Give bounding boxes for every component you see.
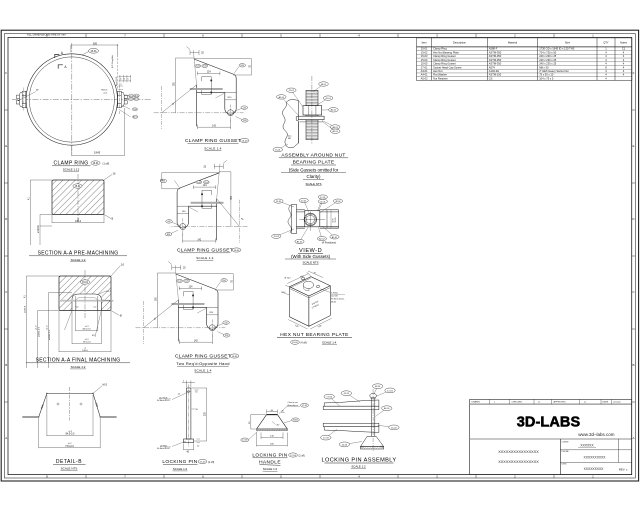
svg-text:E: E [632,144,634,148]
svg-text:ø32: ø32 [225,322,228,324]
corner x marks [361,446,383,448]
dim line 124 [198,72,220,76]
drawing description text [498,450,539,464]
svg-text:41.01: 41.01 [320,201,326,203]
leaders to balloons [120,96,131,117]
dim 142 bottom [179,335,212,345]
balloon 41.01 [129,94,134,97]
title block outline [470,399,632,474]
clamp ring gusset 15-03 balloons and labels [195,64,201,67]
svg-text:A2.01: A2.01 [279,96,285,99]
gusset hole [209,325,215,331]
svg-text:XXXXXXXXXX: XXXXXXXXXX [584,455,607,459]
leader R10 [216,94,225,99]
client cells [562,441,570,465]
right lug detail [117,91,127,107]
lug inner line [225,91,236,93]
svg-text:15-03: 15-03 [178,281,182,283]
svg-text:QTY: QTY [603,41,609,45]
svg-text:XXXXXXXXXXXXXXXX: XXXXXXXXXXXXXXXX [498,450,539,454]
svg-text:SCALE 1:2: SCALE 1:2 [71,258,86,262]
svg-text:Hex Nut: Hex Nut [433,69,443,73]
svg-text:ASTM-350: ASTM-350 [489,54,502,58]
pin knob [370,393,377,398]
svg-text:15-04: 15-04 [234,250,240,252]
groove corner leaders [65,291,109,337]
leader R50 [174,180,179,187]
svg-text:Item: Item [422,41,427,45]
svg-text:CS: CS [489,76,493,80]
bearing plate [298,116,324,120]
gusset hole [180,224,186,230]
svg-text:+1.3: +1.3 [36,325,38,330]
gray bands [320,227,339,229]
locking pin handle view [241,401,309,472]
svg-text:240 x 230 x 25: 240 x 230 x 25 [539,58,557,62]
svg-text:15-03: 15-03 [242,140,248,142]
svg-text:15-02: 15-02 [289,90,295,92]
svg-text:240 x 230 x 25: 240 x 230 x 25 [539,62,557,66]
svg-text:8°: 8° [36,89,38,92]
threaded rod (hatched) [306,90,318,139]
leader note top right [279,406,288,414]
svg-text:15-01: 15-01 [276,201,282,203]
R150 balloon [292,418,300,422]
leader B top right [104,175,112,181]
balloon A5.02 (nut assembly) [322,121,335,131]
base hole leader [172,441,186,447]
leader o32 [215,324,224,327]
svg-text:42.02: 42.02 [344,393,350,395]
balloon A1.01 (assembly) [375,408,387,416]
svg-text:50.29: 50.29 [335,217,337,223]
svg-text:R1.6: R1.6 [109,300,114,302]
balloon 17-05 [132,108,137,111]
balloon A1.01 (view-D) [300,227,309,242]
svg-text:A5-02: A5-02 [421,76,428,80]
svg-text:15-03: 15-03 [197,182,201,184]
nut circles [304,213,317,226]
dim 25 top [168,262,181,300]
dim line 124 [179,287,201,291]
balloon A5.01 (nut assembly) [322,121,335,128]
svg-text:SCALE 1:4: SCALE 1:4 [204,146,222,150]
clamp ring gusset 15-04 balloons and labels [196,181,202,184]
title block header labels [472,401,622,404]
pin body [186,388,191,439]
svg-text:B: B [632,363,634,367]
hex nut bearing plate view [277,271,352,345]
view-D [272,195,343,265]
dim 40 bottom [184,444,194,451]
section A-A cut marks [55,54,63,68]
svg-text:SCALE 1:4: SCALE 1:4 [194,369,212,373]
broken-out ring section (wavy) [282,99,298,148]
balloon 48.01 (assembly) [374,386,378,393]
svg-text:84.5-0.0: 84.5-0.0 [66,432,75,435]
svg-text:15-03: 15-03 [196,66,200,68]
top holes [301,277,305,280]
svg-text:A3-01: A3-01 [421,69,428,73]
parts list table [417,38,632,81]
svg-text:E: E [5,144,7,148]
gusset left edge [216,199,218,241]
zone tick marks top/bottom [86,34,554,479]
svg-text:48.01: 48.01 [321,84,327,86]
dim 50 left [251,415,266,429]
svg-text:A5.02: A5.02 [332,130,338,133]
dim line 350 left [176,58,195,113]
gray slot band [59,300,111,302]
svg-text:A588-F: A588-F [489,47,498,51]
svg-text:15-01: 15-01 [75,186,82,188]
dim 12 right of base [197,439,201,443]
svg-text:Hex Nut Bearing Plate: Hex Nut Bearing Plate [433,50,459,54]
balloon 42.02 (assembly) [346,393,360,402]
bottom dim (section pre) [52,215,104,224]
dim 50 right [176,274,234,290]
svg-text:826: 826 [93,42,98,45]
section centerline [77,174,79,222]
leader M.S [93,386,102,394]
svg-text:15-04: 15-04 [421,58,428,62]
svg-text:F: F [633,71,635,75]
clamp ring outer circle [26,54,117,145]
svg-text:45°: 45° [92,335,95,337]
top dim ticks [182,381,199,391]
leader R50 [216,282,221,289]
ring centerlines [12,43,152,156]
plus marks [57,403,83,406]
balloon 17-01 (view-D) [318,197,323,211]
corner dots [46,393,47,394]
detail-B dims [39,395,100,448]
svg-text:HEX NUT BEARING PLATE: HEX NUT BEARING PLATE [280,332,348,338]
svg-text:42.01: 42.01 [325,98,331,100]
svg-text:Nut Retainer: Nut Retainer [433,76,448,80]
svg-text:73.0-0.0: 73.0-0.0 [83,342,92,344]
svg-text:M8 x 30: M8 x 30 [539,65,549,69]
svg-text:Flat Washer: Flat Washer [433,73,447,77]
svg-text:A2.02: A2.02 [319,237,325,240]
svg-text:DWG: DWG [562,464,567,466]
svg-text:XXXXXXXXXXXXXXXX: XXXXXXXXXXXXXXXX [498,460,539,464]
plate left face [290,287,309,327]
svg-text:SCALE 1:4: SCALE 1:4 [322,341,337,345]
svg-text:Item 41.01: Item 41.01 [115,76,118,86]
svg-text:CLAMP RING GUSSET: CLAMP RING GUSSET [185,138,241,144]
svg-text:(Side Gussets omitted for: (Side Gussets omitted for [289,167,339,172]
svg-text:+1.0: +1.0 [47,325,49,330]
leader R26 [217,332,224,335]
svg-text:48.01: 48.01 [375,386,381,388]
svg-text:F: F [5,71,7,75]
svg-text:Material: Material [508,41,518,45]
svg-text:APPROVED: APPROVED [554,401,567,404]
svg-text:ASTM-350: ASTM-350 [489,62,502,66]
slot band [191,202,223,204]
gusset outline [177,173,219,228]
left lug detail [16,91,26,107]
balloon 42.03 (assembly) [344,442,362,445]
assembly centerline [372,389,374,451]
balloon 15-02 (nut assembly) [291,90,303,107]
balloon 48.01 (view-D) [320,201,338,212]
final machining hatched section [59,276,111,311]
svg-text:C1: C1 [622,47,626,51]
dim line 350 left [219,172,231,227]
svg-text:www.3d–labs.com: www.3d–labs.com [578,432,615,437]
notch detail [184,292,194,310]
centre pocket [304,281,314,288]
dim 50 right [194,59,252,75]
svg-text:15-05: 15-05 [421,62,428,66]
lug centerlines [154,112,244,114]
lug inner line [177,205,188,207]
svg-text:DATE: DATE [603,401,609,404]
svg-text:SCALE 1:2: SCALE 1:2 [71,365,86,369]
inner vertical line [326,210,328,228]
leader end centerline [239,200,241,243]
nut square [305,210,320,226]
svg-text:Chas to suit: Chas to suit [288,401,298,404]
notch detail [202,77,212,95]
balloon 17-04 (assembly) [326,429,337,437]
balloon 15-01 (section) [73,184,82,188]
pin base [184,439,194,443]
svg-text:R26: R26 [243,120,246,122]
svg-text:A194-2H: A194-2H [489,69,499,73]
dim 142 bottom [198,120,231,130]
balloon A2.01 (nut assembly) [281,97,299,116]
gusset outline [194,59,236,114]
svg-text:Size: Size [565,41,571,45]
small dims above right lug [119,75,132,90]
step lines [290,289,309,298]
lower handle profile [324,427,379,433]
svg-text:Fit Item 41.01,: Fit Item 41.01, [331,298,345,301]
bottom dims 130/180 [257,433,288,447]
svg-text:A1.01: A1.01 [297,240,303,243]
top dim lines [285,271,323,287]
svg-text:15-05: 15-05 [232,356,238,358]
svg-text:1943: 1943 [94,151,101,155]
gusset left edge [177,300,179,342]
svg-text:1730 OD x 1645 ID x 120 THS: 1730 OD x 1645 ID x 120 THS [539,47,574,51]
svg-text:Clarity): Clarity) [307,174,321,179]
45 deg leader [162,85,197,113]
svg-text:xx/xx/xx: xx/xx/xx [613,402,622,404]
dimension 1943 [72,108,125,156]
bottom dims (final) [59,296,111,352]
svg-text:42.02: 42.02 [129,99,133,101]
detail-B view [22,383,116,471]
svg-text:73.6-0.0: 73.6-0.0 [65,445,74,448]
svg-text:84.5-0.0: 84.5-0.0 [83,329,92,331]
leader 16 top right (final) [111,266,121,277]
lower arm bar [323,423,379,426]
plate top face [290,277,331,296]
svg-text:CLAMP RING GUSSET: CLAMP RING GUSSET [177,248,233,254]
clamp ring gusset 15-05 view [136,262,234,345]
mid tick 50 [192,408,196,410]
svg-text:Fit Item 48.02: Fit Item 48.02 [157,447,171,450]
svg-text:SCALE NTS: SCALE NTS [61,467,78,471]
svg-text:(With Side Gussets): (With Side Gussets) [291,254,331,259]
svg-text:ø1952-0.0: ø1952-0.0 [38,326,40,337]
svg-text:Description: Description [453,41,467,45]
svg-text:15-01: 15-01 [90,50,97,53]
svg-text:15-01: 15-01 [421,47,428,51]
svg-text:15-02: 15-02 [274,236,280,238]
svg-text:136-0: 136-0 [82,350,88,352]
svg-text:15-05: 15-05 [184,281,188,283]
svg-text:A1.01: A1.01 [384,407,390,410]
leader o32 [172,222,181,225]
svg-text:17-01: 17-01 [387,390,393,392]
svg-text:15-01: 15-01 [82,282,89,284]
right dim 235 [192,388,207,441]
svg-text:136-0: 136-0 [75,220,82,223]
leader R26 [171,230,178,233]
svg-text:ASTM-350: ASTM-350 [489,58,502,62]
svg-text:CLIENT: CLIENT [562,441,570,443]
dim line 350 left [157,273,176,328]
clamp ring gusset 15-03 view [154,47,252,130]
bottom dim lines [288,318,331,329]
balloon 17-01 (assembly) [377,390,391,396]
svg-text:A: A [632,436,634,440]
svg-text:48.01: 48.01 [331,301,337,303]
upper handle profile [324,400,379,406]
svg-text:B: B [112,217,114,221]
top dimension 826 [71,45,118,57]
svg-text:ø130-8: ø130-8 [37,225,40,233]
balloon A4.01 [134,97,139,100]
svg-text:CHECKED: CHECKED [512,402,523,404]
slot band [172,303,204,305]
svg-text:ø130-8: ø130-8 [24,305,26,313]
left dims (section pre) [30,180,52,245]
left dims (final) [26,276,72,368]
locking pin view [157,381,214,472]
svg-text:(2 off): (2 off) [208,461,214,464]
dim 25 top [187,47,200,85]
slot band [190,88,222,90]
detail-B gray wings [22,416,39,418]
svg-text:R26: R26 [225,335,228,337]
svg-text:42.03: 42.03 [342,444,348,446]
svg-text:Clamp Ring Gusset: Clamp Ring Gusset [433,54,456,58]
leader R26 [236,117,243,120]
balloon 15-01 (ring) [89,48,99,53]
balloon 15-01 (view-D) [279,201,295,207]
svg-text:ø1942-0.0: ø1942-0.0 [49,329,51,340]
lug centerlines [136,327,226,329]
leader end centerline [161,86,163,129]
svg-text:15-04: 15-04 [204,182,208,184]
leader R50 [234,67,239,74]
right end line [338,210,340,228]
top thick edge [267,414,278,416]
clamp ring view [12,42,152,171]
svg-text:2" HEX Heavy Series Nut: 2" HEX Heavy Series Nut [539,69,569,73]
svg-text:A4.01: A4.01 [134,98,138,101]
svg-text:SCALE 1:2: SCALE 1:2 [351,465,366,469]
svg-text:A3.01: A3.01 [332,236,338,239]
svg-text:17-03: 17-03 [326,397,332,399]
svg-text:SCALE 1:4: SCALE 1:4 [196,256,214,260]
svg-text:R50: R50 [222,280,225,282]
svg-text:48.01: 48.01 [335,201,341,203]
view-D centerlines [299,219,325,221]
balloon A5.02 [133,115,138,118]
svg-text:R.C. Ring Bolt: R.C. Ring Bolt [111,55,114,68]
svg-text:PHONE: PHONE [562,451,570,453]
svg-text:17-03: 17-03 [290,455,296,457]
leader B bottom right [104,215,111,219]
svg-text:REV. x: REV. x [619,467,628,471]
svg-text:41.01: 41.01 [129,95,133,97]
left gusset bar + wavy break [292,204,297,233]
leader R10 [197,309,206,314]
balloon 41.01 (view-D) [318,201,323,211]
svg-text:SCALE 1:2: SCALE 1:2 [173,467,188,471]
section centerline (final) [84,270,86,318]
dim 50b [281,411,285,413]
svg-text:17-03: 17-03 [242,440,248,442]
dim 40 top [267,410,278,414]
svg-text:ø32: ø32 [167,221,170,223]
svg-text:A5.01: A5.01 [332,126,338,129]
lug inner line [207,306,218,308]
pin top hole [188,391,190,393]
balloon 15-01 (nut assembly) [278,144,288,150]
svg-text:M.S: M.S [103,383,108,387]
gusset hole [228,110,234,116]
balloon 42.01 (view-D) [304,201,309,213]
dim 25 top [214,160,227,198]
svg-text:45°: 45° [277,424,280,426]
svg-text:SCALE 1:2: SCALE 1:2 [263,467,278,471]
handle trapezoid [257,415,288,429]
handle trapezoid bottom [360,436,383,446]
svg-text:DRAWN: DRAWN [472,401,481,404]
leader R10 [189,207,198,212]
plate right face [309,286,330,327]
svg-text:3D-LABS: 3D-LABS [517,414,581,430]
balloon 15-01 (final) [80,280,89,284]
svg-text:R1.5: R1.5 [106,291,111,293]
svg-text:Notes: Notes [620,41,627,45]
svg-text:724 x 720 x 50: 724 x 720 x 50 [539,50,557,54]
centerline rod [311,76,313,144]
svg-text:(1 off): (1 off) [103,162,110,166]
balloon 15-02 (assembly) [378,425,394,427]
svg-text:104 x 75 x 5: 104 x 75 x 5 [539,76,554,80]
balloon 48.01 (nut assembly) [313,84,324,92]
svg-text:CLAMP RING GUSSET: CLAMP RING GUSSET [175,354,231,360]
zone numbers [46,34,594,479]
svg-text:R26: R26 [167,234,170,236]
svg-text:15-02: 15-02 [391,427,397,429]
notch detail [202,190,212,208]
detail-B profile [22,393,116,417]
svg-text:15-02: 15-02 [292,342,298,344]
svg-text:(4 off): (4 off) [301,342,307,345]
svg-text:17-05: 17-05 [133,109,137,111]
svg-text:HANDLE: HANDLE [259,459,281,465]
